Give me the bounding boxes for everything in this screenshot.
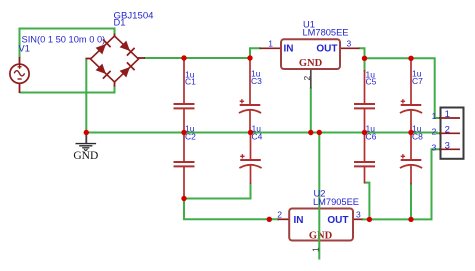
svg-text:C3: C3 — [251, 76, 262, 86]
svg-text:SIN(0 1 50 10m 0 0): SIN(0 1 50 10m 0 0) — [22, 35, 106, 45]
wire ground mid rail — [86, 132, 440, 135]
wire +rail A up to U1 IN — [250, 48, 261, 58]
svg-text:1: 1 — [432, 111, 437, 121]
node C1/C2 mid — [181, 130, 186, 135]
wire C5 top stub — [364, 58, 366, 72]
svg-text:3: 3 — [347, 38, 352, 48]
capacitor C3 (polarized) — [239, 57, 261, 133]
wire bridge top drop — [114, 28, 116, 35]
svg-text:V1: V1 — [19, 44, 30, 54]
svg-text:2: 2 — [445, 124, 450, 135]
wire U2 OUT -5V rail — [362, 149, 441, 219]
voltage source V1 — [10, 57, 29, 93]
wire U1 OUT to +rail B — [359, 48, 365, 58]
capacitor C8 (polarized) — [400, 132, 422, 185]
wire V1 bottom to bridge bottom — [20, 86, 115, 93]
svg-text:C1: C1 — [185, 77, 196, 87]
bridge diode D1b (top->right) — [120, 41, 135, 56]
wire V1 top vertical — [19, 29, 21, 59]
node C3/C4 mid — [248, 130, 253, 135]
node U1 GND rail — [308, 130, 313, 135]
wire U1 GND down to rail — [310, 88, 312, 133]
wire bridge left vertex down to ground rail — [85, 59, 87, 133]
capacitor C2 — [174, 132, 195, 196]
svg-text:1: 1 — [268, 39, 273, 49]
wire bridge right to +rail A — [144, 57, 250, 59]
svg-text:3: 3 — [432, 142, 437, 152]
svg-text:LM7905EE: LM7905EE — [313, 197, 359, 207]
node U2 GND rail — [317, 130, 322, 135]
svg-text:IN: IN — [294, 215, 304, 226]
node C5/C6 mid — [362, 130, 367, 135]
svg-text:GND: GND — [73, 150, 98, 162]
ground symbol (earth) — [76, 134, 97, 151]
node C5 top — [362, 56, 367, 61]
capacitor C4 (polarized) — [239, 132, 261, 184]
node bridge-left/ground rail — [84, 130, 89, 135]
svg-text:C7: C7 — [412, 76, 423, 86]
svg-text:GND: GND — [299, 58, 323, 69]
svg-text:2: 2 — [432, 127, 437, 137]
svg-text:IN: IN — [284, 44, 294, 55]
svg-text:2: 2 — [277, 210, 282, 220]
connector J1 — [439, 108, 464, 159]
node U2 IN — [267, 217, 272, 222]
wire U2 GND vertical through body — [318, 133, 320, 260]
capacitor C1 — [174, 57, 195, 133]
wire C8 bottom stub — [410, 183, 412, 219]
wire top horizontal V1 to bridge — [19, 28, 115, 30]
capacitor C5 — [354, 70, 375, 133]
node C1 top — [181, 55, 186, 60]
wire C2 bottom stub — [183, 195, 185, 199]
node C3 top — [247, 55, 252, 60]
bridge diode D1d (bottom->right) — [120, 62, 135, 77]
op-amp U2 regulator LM7905EE — [278, 209, 363, 242]
svg-text:2: 2 — [302, 76, 312, 81]
node C7/C8 mid — [408, 130, 413, 135]
wire C6 bottom jog — [365, 183, 370, 220]
svg-text:OUT: OUT — [316, 44, 337, 55]
node C6 bottom — [367, 217, 372, 222]
svg-text:OUT: OUT — [327, 215, 348, 226]
capacitor C6 — [354, 132, 375, 184]
bridge rectifier D1 diamond — [86, 34, 146, 87]
node C2 bottom — [181, 196, 186, 201]
svg-text:3: 3 — [356, 210, 361, 220]
svg-text:1: 1 — [311, 247, 321, 252]
wire bottom rail C2-C4 — [184, 183, 251, 199]
wire C2 junction down to U2 IN — [184, 199, 279, 220]
svg-text:3: 3 — [445, 140, 450, 151]
svg-text:C5: C5 — [366, 77, 377, 87]
svg-text:1: 1 — [445, 109, 450, 120]
wire +rail B — [365, 58, 441, 118]
bridge diode D1a (left->top) — [96, 39, 111, 54]
node C7 top — [408, 56, 413, 61]
node junction dots — [84, 55, 414, 222]
bridge diode D1c (left->bottom) — [96, 64, 111, 79]
op-amp U1 regulator LM7805EE — [260, 39, 360, 88]
svg-text:GND: GND — [309, 230, 333, 241]
svg-text:D1: D1 — [114, 18, 126, 28]
capacitor C7 (polarized) — [400, 57, 422, 133]
svg-text:LM7805EE: LM7805EE — [303, 27, 349, 37]
node C8 bottom — [408, 217, 413, 222]
